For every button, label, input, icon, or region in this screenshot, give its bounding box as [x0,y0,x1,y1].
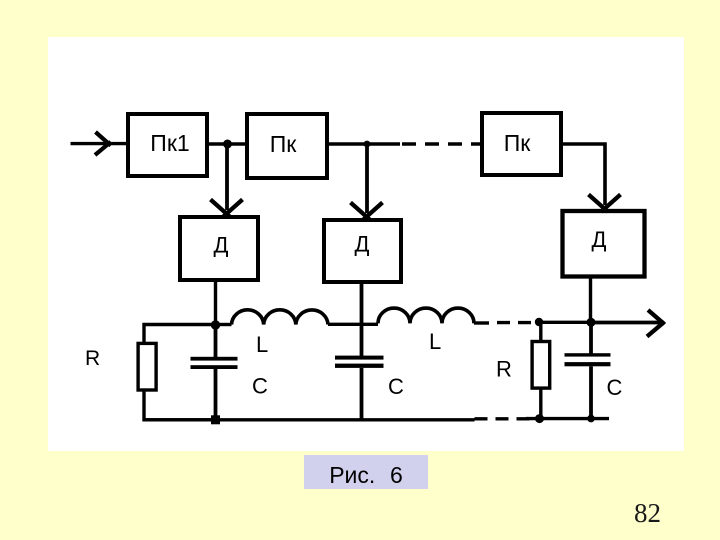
svg-text:R: R [85,347,100,370]
node bottom R2 [535,414,544,423]
wire J4 down to resistor R2 [539,322,542,342]
wire Пк1 to Пк [209,142,245,145]
inductor L2 [378,308,474,323]
svg-text:Д: Д [214,233,229,258]
node J5 [587,318,596,327]
wire node A left and down to resistor R1 [144,325,216,344]
svg-text:C: C [607,375,623,400]
node J2 [364,141,371,148]
svg-text:L: L [256,332,268,357]
wire J4 to J5 [539,321,591,324]
output arrow [591,310,665,337]
wire R1 bottom to bottom bus [144,390,216,420]
resistor R2 [532,342,550,389]
svg-text:Пк: Пк [270,131,298,157]
capacitor C3 stub bottom [589,366,593,418]
inductor L1 [232,310,329,325]
wire Д2 down through bus to capacitor C2 [360,282,364,357]
page number 82 [634,498,661,529]
svg-text:L: L [429,329,441,354]
node bottom-left [211,415,220,424]
svg-text:C: C [388,374,404,399]
capacitor C1 stub top [214,325,218,357]
block Пк (second) [247,114,327,178]
wire R2 bottom to bottom bus [539,388,542,419]
wire L2 tail [474,321,489,324]
node A [211,320,220,329]
dashed wire to Пк (third) [402,142,480,145]
input arrow [71,132,127,155]
wire J2 down to Д2 with arrowhead [351,144,383,220]
svg-text:Д: Д [355,232,370,257]
capacitor C1 stub bottom [214,369,218,420]
capacitor C3 [565,353,611,366]
wire Д3 down to J5 [589,276,592,322]
wire Пк3 to Д3 with arrowhead [563,144,621,212]
block Пк1 [128,114,207,176]
block Д3 [563,211,645,277]
svg-text:R: R [496,357,512,382]
block Пк (third) [482,113,561,175]
node J1 [223,140,232,149]
capacitor C3 stub top [589,322,593,353]
svg-text:Пк1: Пк1 [150,130,189,156]
bottom bus solid right [526,417,609,420]
svg-text:Д: Д [592,227,607,252]
node bottom C3 [587,415,595,423]
capacitor C2 [335,356,384,368]
white diagram panel [48,37,684,451]
svg-text:Пк: Пк [504,130,532,156]
bottom bus dashed [475,417,539,420]
block Д2 [324,220,401,282]
svg-text:C: C [252,374,268,399]
wire J1 down to Д1 with arrowhead [211,144,243,217]
caption box Рис. 6 [304,455,428,489]
wire Пк out to J2 [329,142,400,145]
resistor R1 [138,343,156,390]
capacitor C1 [191,357,238,369]
wire node A to inductor L1 [216,323,232,326]
node J4 [535,318,543,326]
wire L1 to L2 (bus through Д2 drop) [328,323,378,326]
block Д1 [180,217,258,280]
wire Д1 down to node A [214,282,217,325]
capacitor C2 stub bottom [360,368,364,420]
dashed top bus [489,321,535,324]
bottom bus solid left [144,418,475,421]
